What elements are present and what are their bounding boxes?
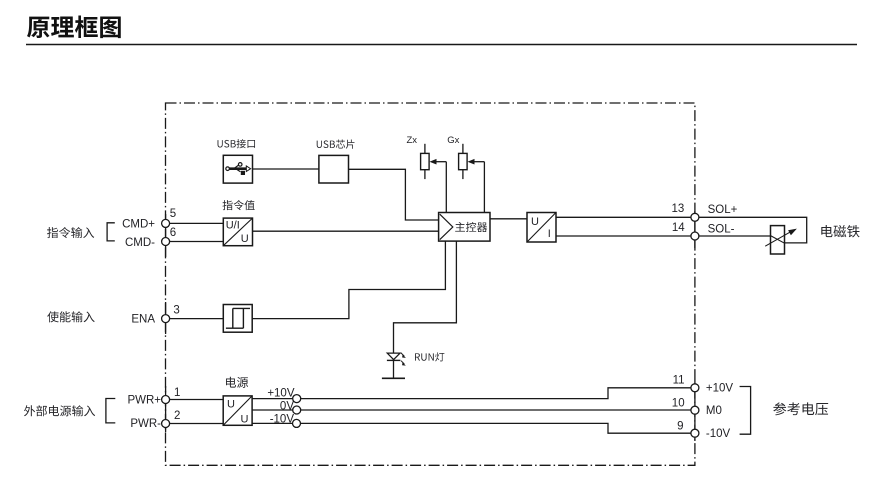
svg-text:PWR+: PWR+	[127, 394, 161, 406]
USB connector U3 box	[223, 155, 252, 183]
svg-text:6: 6	[170, 227, 176, 239]
junction 0V	[293, 406, 301, 414]
enclosure border (dash-dot)	[166, 103, 695, 465]
solenoid coil symbol	[765, 226, 797, 254]
bracket command input	[107, 223, 115, 241]
svg-text:+10V: +10V	[267, 388, 295, 400]
svg-text:11: 11	[673, 375, 685, 387]
wire ENA to hysteresis block	[170, 318, 223, 320]
label 参考电压	[773, 402, 828, 415]
svg-text:-10V: -10V	[706, 428, 731, 440]
svg-text:PWR-: PWR-	[130, 418, 161, 430]
terminal 13 SOL+	[691, 213, 699, 221]
converter U/I-U (command value)	[223, 218, 252, 246]
wire SOL- from converter to solenoid	[556, 235, 771, 237]
label 主控器	[455, 222, 487, 232]
potentiometer Gx	[459, 144, 485, 179]
label 指令输入	[47, 227, 94, 238]
wire -10V rail	[252, 423, 690, 433]
wire PWR+ to power block	[170, 399, 223, 401]
wire USB chip to controller	[349, 169, 439, 220]
terminal 2 PWR-	[162, 420, 170, 428]
label 指令值	[222, 200, 254, 210]
svg-text:ENA: ENA	[131, 313, 155, 325]
svg-text:3: 3	[173, 304, 179, 316]
wire PWR- to power block	[170, 423, 223, 425]
wire CMD- to U/I-U block	[170, 241, 223, 243]
title 原理框图	[27, 16, 121, 39]
svg-text:2: 2	[174, 410, 180, 422]
title underline	[26, 44, 857, 46]
label 使能输入	[47, 311, 94, 322]
svg-text:Zx: Zx	[407, 135, 418, 146]
label USB接口	[218, 139, 256, 148]
junction +10V	[293, 395, 301, 403]
LED RUN	[387, 353, 406, 378]
wire border stub SOL terminals	[694, 211, 696, 248]
svg-text:U: U	[241, 233, 249, 245]
terminal 10 M0	[691, 406, 699, 414]
wire controller to RUN LED	[394, 241, 457, 353]
svg-text:1: 1	[174, 387, 180, 399]
svg-text:5: 5	[170, 208, 176, 220]
svg-text:U: U	[227, 399, 235, 411]
label USB芯片	[317, 140, 355, 149]
terminal 1 PWR+	[162, 396, 170, 404]
wire Gx wiper to controller top	[483, 162, 485, 213]
converter U/I (output)	[527, 213, 556, 243]
svg-text:U: U	[531, 216, 539, 228]
label 电源	[226, 377, 248, 388]
label 电磁铁	[821, 225, 859, 237]
terminal 11 +10V	[691, 384, 699, 392]
USB trident icon	[226, 163, 251, 175]
label 外部电源输入	[24, 405, 95, 416]
wire border stub ENA terminal	[165, 302, 167, 334]
bracket power input	[106, 399, 115, 423]
hysteresis block	[223, 305, 252, 333]
USB chip U4 box	[319, 155, 349, 183]
svg-text:10: 10	[672, 398, 685, 410]
svg-text:U/I: U/I	[226, 219, 240, 231]
svg-text:9: 9	[677, 421, 683, 433]
wire Zx wiper to controller top	[445, 162, 447, 213]
svg-text:SOL+: SOL+	[708, 204, 738, 216]
bracket reference voltage	[740, 387, 751, 435]
wire CMD+ to U/I-U block	[170, 222, 223, 224]
junction -10V	[293, 419, 301, 427]
potentiometer Zx	[421, 144, 447, 179]
op-amp / main controller 主控器	[439, 213, 490, 242]
svg-text:SOL-: SOL-	[708, 223, 735, 235]
wire 0V rail	[252, 409, 690, 411]
svg-text:13: 13	[672, 203, 685, 215]
svg-text:M0: M0	[706, 405, 722, 417]
power supply U/U converter	[223, 396, 252, 425]
wire hysteresis block to controller bottom	[252, 241, 445, 319]
wire SOL+ from converter to solenoid	[556, 217, 807, 243]
wire +10V rail	[252, 388, 690, 399]
label RUN灯	[415, 352, 444, 361]
svg-text:U: U	[241, 414, 249, 426]
svg-text:I: I	[548, 228, 551, 240]
wire controller to U/I converter	[490, 218, 527, 220]
svg-text:CMD-: CMD-	[125, 237, 155, 249]
wire USB connector to USB chip	[253, 168, 319, 170]
wire border stub CMD terminals	[165, 214, 167, 257]
terminal 5 CMD+	[162, 219, 170, 227]
wire border stub reference terminals	[694, 380, 696, 441]
svg-text:14: 14	[672, 222, 685, 234]
wire border stub PWR terminals	[165, 386, 167, 432]
svg-text:Gx: Gx	[447, 135, 459, 146]
svg-text:CMD+: CMD+	[122, 218, 155, 230]
svg-text:+10V: +10V	[706, 382, 734, 394]
terminal 14 SOL-	[691, 232, 699, 240]
terminal 9 -10V	[691, 429, 699, 437]
wire command value to controller	[253, 230, 439, 232]
terminal 6 CMD-	[162, 238, 170, 246]
ground	[382, 377, 405, 379]
terminal 3 ENA	[162, 315, 170, 323]
